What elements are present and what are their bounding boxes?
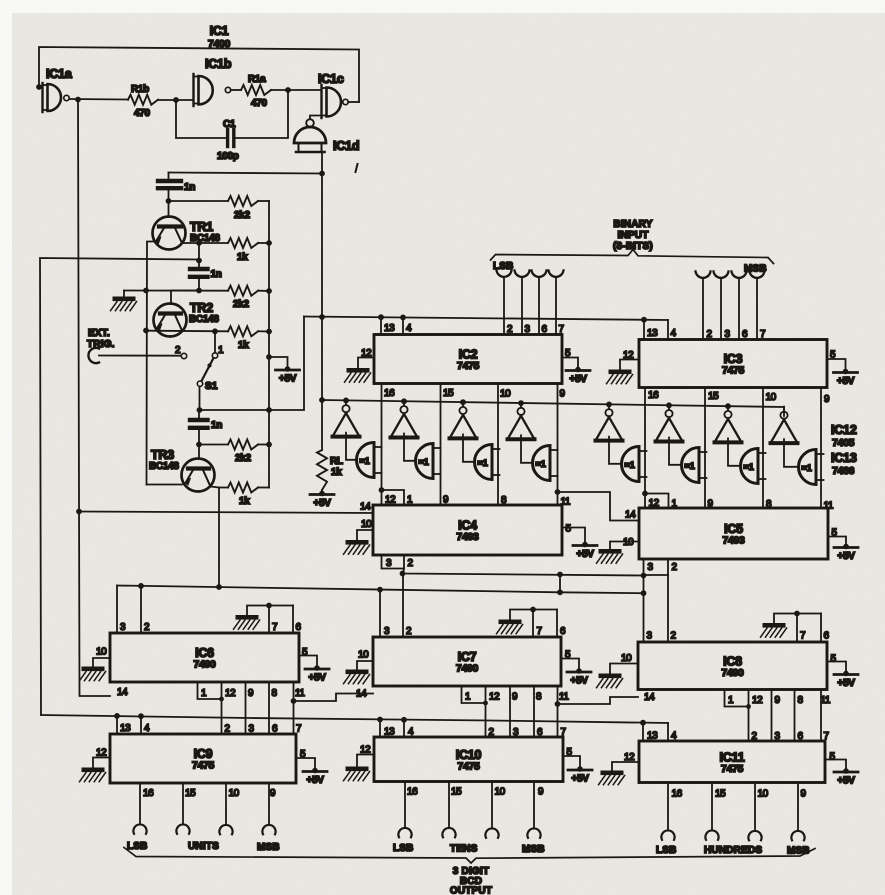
- pin 12 IC2: [358, 348, 374, 368]
- svg-text:7475: 7475: [457, 760, 480, 772]
- wire inverter 1 output: [346, 433, 357, 460]
- svg-text:9: 9: [512, 692, 518, 703]
- XOR gate IC13d: [533, 446, 558, 481]
- pin labels IC6 top: [120, 622, 302, 633]
- svg-text:9: 9: [801, 789, 807, 800]
- svg-text:6: 6: [824, 631, 830, 642]
- svg-text:11: 11: [561, 497, 571, 508]
- svg-text:2: 2: [225, 724, 231, 735]
- svg-text:9: 9: [560, 389, 566, 400]
- output terminal hundreds bit1: [705, 783, 718, 840]
- wire IC8 pins7,6 tie: [774, 611, 821, 642]
- wire IC6 pin12 to IC9 pin2: [221, 699, 223, 734]
- wire inverter 4 output: [521, 435, 533, 463]
- svg-text:LSB: LSB: [393, 843, 414, 854]
- svg-text:2k2: 2k2: [235, 453, 252, 464]
- output terminal units bit2: [219, 783, 232, 834]
- svg-text:+5V: +5V: [279, 374, 297, 385]
- wire IC1a output down to IC6 pin 14: [76, 100, 110, 697]
- IC7 bottom notch pin1: [462, 686, 488, 705]
- pin 14 IC8: [644, 692, 655, 703]
- svg-text:14: 14: [625, 510, 636, 521]
- wire IC2 pin16 to IC4 pin12: [379, 384, 385, 493]
- XOR gate IC13f: [682, 448, 707, 483]
- svg-text:14: 14: [644, 692, 655, 703]
- resistor RL (1k pull-up): [317, 450, 343, 490]
- pin 5 IC4: [566, 524, 572, 535]
- +5V supply IC8: [827, 662, 858, 690]
- svg-text:=1: =1: [419, 457, 429, 467]
- brace 3 digit BCD output: [124, 848, 815, 864]
- wire IC11 pin13 stub: [642, 723, 644, 741]
- ground IC7 pins7,6: [497, 620, 523, 634]
- wire IC2 pin10 to IC4 pin8: [497, 384, 499, 506]
- IC IC4 (7493): [373, 505, 562, 555]
- svg-text:10: 10: [96, 647, 107, 658]
- wire IC3 pin9 to IC5 pin11: [820, 388, 822, 509]
- svg-text:3: 3: [249, 724, 255, 735]
- svg-text:15: 15: [185, 788, 196, 799]
- pin labels IC8 top: [647, 631, 830, 642]
- svg-text:MSB: MSB: [787, 846, 810, 857]
- wire IC6 pin8 to IC9 pin6: [268, 682, 270, 734]
- svg-text:BINARY: BINARY: [613, 219, 652, 230]
- svg-text:C1: C1: [223, 119, 236, 130]
- svg-text:+5V: +5V: [569, 374, 587, 385]
- svg-text:16: 16: [407, 787, 418, 798]
- pin 10 IC7: [357, 650, 373, 670]
- svg-text:1k: 1k: [331, 467, 342, 478]
- IC IC11 (7475): [639, 741, 825, 783]
- svg-text:15: 15: [443, 388, 454, 399]
- +5V supply IC10: [563, 756, 592, 785]
- IC5 top notch pins 12,1: [645, 494, 669, 509]
- IC4 bottom notch pins 3,2: [382, 555, 414, 569]
- pin 12 IC10: [357, 745, 374, 767]
- +5V supply rail: [269, 357, 300, 385]
- wire cascade IC6 pin11 to IC7 pin14: [294, 694, 374, 702]
- pin 5 IC6: [302, 647, 308, 658]
- svg-text:7: 7: [800, 631, 806, 642]
- NAND gate IC1d: [294, 119, 359, 153]
- NAND gate IC1b: [194, 57, 232, 106]
- wire IC7 pin2 riser: [402, 574, 404, 638]
- svg-text:1: 1: [465, 692, 471, 703]
- output terminal units MSB: [262, 783, 275, 834]
- svg-text:BC148: BC148: [149, 461, 179, 472]
- wire latch strobe bus bottom: [41, 713, 668, 726]
- svg-text:15: 15: [715, 789, 726, 800]
- IC IC3 (7475): [639, 340, 827, 388]
- wire IC10 pin4 stub: [403, 720, 405, 737]
- svg-text:6: 6: [742, 329, 748, 340]
- XOR gate IC13h: [799, 450, 824, 485]
- wire IC8 pin8 to IC11 pin6: [794, 690, 796, 742]
- svg-text:11: 11: [295, 688, 305, 699]
- wire IC10 pin13 stub: [379, 720, 381, 738]
- svg-text:+5V: +5V: [570, 676, 588, 687]
- svg-text:+5V: +5V: [571, 774, 589, 785]
- svg-text:10: 10: [358, 650, 369, 661]
- ground IC10 pin12: [344, 767, 370, 781]
- wire IC2 pin9 to IC4 pin11: [555, 384, 561, 506]
- svg-text:7: 7: [561, 727, 567, 738]
- wire cascade IC4 pin11 to IC5 pin14: [558, 492, 640, 521]
- svg-text:1n: 1n: [184, 182, 195, 193]
- wire ground to 2k2 TR2 row: [124, 290, 228, 292]
- svg-text:TR3: TR3: [151, 448, 174, 462]
- XOR gate IC13a: [357, 443, 382, 478]
- svg-text:1n: 1n: [211, 420, 222, 431]
- svg-text:1n: 1n: [211, 269, 222, 280]
- output terminal units LSB: [133, 783, 146, 834]
- input terminal bit 1: [515, 271, 530, 335]
- label IC13 7486: [831, 451, 857, 477]
- svg-text:3: 3: [775, 731, 781, 742]
- svg-text:11: 11: [824, 501, 834, 512]
- wire IC8 pin3 riser: [641, 576, 647, 643]
- resistor R1a (470): [231, 74, 271, 109]
- pin 10 IC5: [610, 537, 639, 549]
- pin labels IC11 top: [647, 731, 830, 743]
- output terminal tens bit1: [442, 782, 455, 838]
- svg-text:14: 14: [360, 502, 371, 513]
- node TR1 collector: [166, 198, 228, 204]
- resistor 1k (TR3): [219, 483, 269, 508]
- svg-text:+5V: +5V: [306, 775, 324, 786]
- svg-text:6: 6: [798, 731, 804, 742]
- NAND gate IC1c: [318, 72, 359, 118]
- pin labels IC9 top: [120, 723, 302, 735]
- pin 12 IC3: [620, 350, 639, 370]
- svg-text:3: 3: [384, 626, 390, 637]
- svg-text:13: 13: [647, 731, 658, 742]
- pin 5 IC10: [567, 747, 573, 758]
- IC IC7 (7490): [373, 637, 561, 686]
- svg-text:7: 7: [559, 324, 565, 335]
- svg-text:2k2: 2k2: [234, 210, 251, 221]
- svg-text:=1: =1: [536, 459, 546, 469]
- svg-text:IC1d: IC1d: [333, 139, 359, 153]
- XOR gate IC13e: [622, 447, 647, 482]
- svg-text:11: 11: [559, 692, 569, 703]
- stray mark: [356, 164, 358, 172]
- ground IC9 pin12: [80, 768, 106, 782]
- pin labels IC2 bottom: [384, 388, 566, 400]
- wire inverter stub 2: [403, 401, 405, 405]
- svg-text:R1b: R1b: [131, 84, 149, 95]
- wire TR1 emitter to 1k and down: [182, 240, 228, 263]
- output terminal units bit1: [176, 783, 189, 834]
- pin 14 IC7: [356, 689, 367, 700]
- svg-text:7475: 7475: [457, 360, 480, 372]
- pin labels IC6 bottom: [201, 688, 305, 699]
- wire IC3 pin13 stub: [643, 320, 645, 340]
- svg-text:2: 2: [672, 562, 678, 573]
- wire inverter 5 output: [609, 437, 622, 464]
- wire inverter 8 output: [784, 439, 799, 467]
- svg-text:7490: 7490: [721, 667, 744, 679]
- svg-text:3: 3: [647, 631, 653, 642]
- pin 10 IC4: [357, 519, 373, 540]
- wire IC6 pin9 to IC9 pin3: [245, 682, 247, 734]
- output terminal tens LSB: [398, 782, 411, 838]
- svg-text:TR2: TR2: [190, 301, 213, 315]
- wire IC2 pin13 stub: [380, 317, 382, 334]
- svg-text:MSB: MSB: [522, 844, 545, 855]
- svg-text:3: 3: [648, 562, 654, 573]
- wire R1b to IC1b input: [158, 97, 193, 103]
- switch S1: [197, 331, 224, 410]
- ground IC3 pin12: [607, 370, 633, 384]
- svg-text:7405: 7405: [832, 437, 855, 449]
- svg-text:9: 9: [775, 695, 781, 706]
- wire IC8 pin2 riser: [667, 575, 669, 642]
- resistor 2k2 (TR2): [228, 286, 269, 310]
- pin 5 IC3: [830, 350, 836, 361]
- svg-text:EXT.: EXT.: [88, 328, 110, 339]
- pin labels IC10 bottom: [407, 787, 544, 798]
- +5V supply IC9: [296, 758, 327, 786]
- wire IC7 pins7,6 tie: [510, 607, 557, 637]
- IC IC10 (7475): [374, 737, 563, 782]
- svg-text:16: 16: [648, 390, 659, 401]
- svg-text:8: 8: [272, 688, 278, 699]
- capacitor 1n (top): [158, 173, 195, 218]
- node TR3 collector: [196, 442, 228, 448]
- wire TR3 emitter: [211, 487, 220, 588]
- inverter IC12a: [333, 405, 360, 437]
- wire +5V rail vertical: [266, 201, 272, 488]
- wire top feedback line: [39, 47, 359, 102]
- pin 12 IC11: [612, 752, 639, 771]
- svg-text:7490: 7490: [456, 663, 479, 675]
- wire inverter stub 6: [668, 405, 670, 409]
- ground IC4 pin10: [344, 540, 370, 554]
- ground IC6 pin10: [80, 667, 106, 681]
- wire TR1 left lead down to TR3 base: [143, 242, 156, 485]
- wire reset bus lower (TR3 emitter): [117, 583, 644, 595]
- pin 10 IC6: [93, 647, 110, 667]
- svg-text:7: 7: [824, 731, 830, 742]
- svg-text:BC148: BC148: [189, 314, 219, 325]
- inverter IC12e: [596, 409, 623, 441]
- inverter IC12f: [656, 410, 683, 442]
- svg-text:OUTPUT: OUTPUT: [450, 886, 492, 895]
- svg-text:2: 2: [671, 631, 677, 642]
- +5V supply IC2: [562, 358, 590, 386]
- wire IC1d output to IC1c input: [310, 116, 322, 119]
- svg-text:=1: =1: [802, 463, 812, 473]
- input terminal bit 3: [549, 271, 564, 335]
- inverter IC12g: [715, 411, 742, 443]
- svg-text:4: 4: [671, 731, 677, 742]
- wire cascade IC7 pin11 to IC8 pin14: [558, 697, 639, 704]
- svg-text:IC13: IC13: [831, 451, 857, 465]
- input terminal bit 4: [696, 272, 711, 340]
- resistor R1b (470): [128, 84, 158, 119]
- output terminal hundreds MSB: [791, 783, 804, 841]
- wire inverter stub 8: [783, 407, 785, 411]
- svg-text:2: 2: [144, 622, 150, 633]
- svg-text:LSB: LSB: [127, 841, 148, 852]
- pin 12 IC9: [93, 748, 110, 768]
- transistor TR3 (BC148): [147, 448, 215, 492]
- svg-text:10: 10: [500, 389, 511, 400]
- pin 5 IC5: [832, 528, 838, 539]
- +5V supply IC3: [827, 359, 858, 387]
- wire clock bus to IC4 pin 14: [80, 512, 374, 514]
- pin labels IC3 bottom: [648, 390, 830, 405]
- svg-text:1: 1: [201, 688, 207, 699]
- wire IC6 pin3 stub (bus end): [116, 586, 118, 634]
- wire IC2 pin4 stub: [402, 317, 404, 334]
- svg-text:=1: =1: [625, 460, 635, 470]
- capacitor 1n (TR3): [190, 410, 222, 459]
- +5V supply IC4: [562, 528, 597, 561]
- +5V supply IC7: [561, 659, 591, 687]
- svg-text:1: 1: [672, 499, 678, 510]
- label BINARY INPUT (8-BITS): [613, 219, 653, 252]
- svg-text:15: 15: [451, 787, 462, 798]
- pin labels IC2 top: [384, 323, 565, 335]
- wire IC6 pins7,6 tie: [247, 603, 293, 633]
- svg-text:4: 4: [144, 723, 150, 734]
- svg-text:5: 5: [831, 654, 837, 665]
- svg-text:2: 2: [175, 345, 181, 356]
- XOR gate IC13b: [416, 444, 441, 479]
- svg-text:TR1: TR1: [190, 220, 213, 234]
- IC IC6 (7490): [110, 633, 299, 682]
- input terminal bit 0: [497, 271, 512, 335]
- svg-text:16: 16: [384, 388, 395, 399]
- svg-text:S1: S1: [205, 381, 218, 392]
- output terminal tens bit2: [485, 782, 498, 838]
- wire IC7 pin3 stub: [379, 590, 381, 637]
- ground IC8 pins7,6: [761, 623, 787, 637]
- svg-text:8: 8: [798, 695, 804, 706]
- pin labels IC3 top: [647, 328, 766, 340]
- pin labels IC11 bottom: [672, 789, 807, 800]
- svg-text:13: 13: [384, 727, 395, 738]
- svg-text:IC1a: IC1a: [46, 67, 73, 81]
- svg-text:9: 9: [538, 787, 544, 798]
- capacitor C1 (100p): [217, 119, 239, 162]
- svg-text:7475: 7475: [722, 365, 745, 377]
- svg-text:16: 16: [143, 788, 154, 799]
- svg-text:6: 6: [272, 724, 278, 735]
- svg-text:=1: =1: [744, 462, 754, 472]
- svg-text:12: 12: [752, 695, 763, 706]
- wire IC9 pin13 stub: [116, 716, 118, 734]
- wire IC6 pin11 to IC9 pin7 and cascade: [291, 682, 297, 734]
- wire IC8 pin9 to IC11 pin3: [771, 690, 773, 742]
- wire IC3 pin15 to IC5 pin9: [704, 388, 706, 509]
- IC IC9 (7475): [110, 734, 296, 783]
- wire IC1a output to R1b: [70, 97, 129, 103]
- svg-text:7490: 7490: [193, 659, 216, 671]
- svg-text:11: 11: [821, 695, 831, 706]
- svg-text:INPUT: INPUT: [618, 230, 649, 241]
- svg-text:7: 7: [760, 329, 766, 340]
- svg-text:470: 470: [134, 108, 151, 119]
- svg-text:7493: 7493: [456, 531, 479, 543]
- svg-text:7: 7: [272, 622, 278, 633]
- svg-text:8: 8: [766, 499, 772, 510]
- wire IC7 pin12 to IC10 pin2: [485, 703, 487, 737]
- output terminal hundreds LSB: [661, 783, 674, 840]
- IC IC5 (7493): [639, 508, 828, 559]
- resistor 2k2 (TR3): [228, 440, 269, 465]
- pin labels IC8 bottom: [728, 695, 831, 706]
- ground IC7 pin10: [344, 670, 370, 684]
- svg-text:+5V: +5V: [837, 376, 855, 387]
- svg-text:2: 2: [707, 329, 713, 340]
- svg-text:R1a: R1a: [248, 74, 266, 85]
- pin labels IC5 top: [649, 498, 834, 512]
- svg-text:1: 1: [218, 345, 224, 356]
- input terminal bit 2: [532, 271, 547, 335]
- svg-text:10: 10: [229, 788, 240, 799]
- ground IC8 pin10: [597, 674, 623, 688]
- svg-text:6: 6: [560, 626, 566, 637]
- pin 10 IC8: [610, 653, 638, 674]
- svg-text:1: 1: [728, 695, 734, 706]
- svg-text:2: 2: [406, 626, 412, 637]
- wire reset bus upper (IC4/IC5 pins 2,3): [400, 569, 647, 579]
- svg-text:2: 2: [489, 727, 495, 738]
- wire inverter 3 output: [463, 434, 475, 461]
- label 3 DIGIT BCD OUTPUT: [450, 866, 492, 895]
- svg-text:6: 6: [296, 622, 302, 633]
- svg-text:14: 14: [117, 687, 128, 698]
- XOR gate IC13g: [741, 449, 766, 484]
- svg-text:13: 13: [120, 723, 131, 734]
- wire reset bus link: [559, 575, 561, 593]
- wire latch enable bus (IC2/IC3 pins 13,4): [304, 314, 668, 322]
- svg-text:7475: 7475: [721, 763, 744, 775]
- svg-text:3: 3: [120, 622, 126, 633]
- svg-text:12: 12: [225, 688, 236, 699]
- svg-text:7475: 7475: [192, 760, 215, 772]
- svg-text:6: 6: [542, 324, 548, 335]
- svg-text:3: 3: [725, 329, 731, 340]
- input terminal bit 5: [714, 272, 729, 340]
- transistor TR1 (BC148): [153, 217, 221, 250]
- svg-text:9: 9: [248, 688, 254, 699]
- IC8 bottom notch pin1: [725, 690, 751, 709]
- svg-text:10: 10: [758, 789, 769, 800]
- svg-text:=1: =1: [478, 458, 488, 468]
- pin labels IC7 bottom: [465, 692, 569, 703]
- svg-text:MSB: MSB: [257, 842, 280, 853]
- wire reset line to left rail: [40, 258, 199, 715]
- wire TR2 emitter row: [147, 328, 229, 334]
- capacitor 1n (TR2): [190, 261, 222, 291]
- svg-text:2: 2: [408, 558, 414, 569]
- pin 5 IC7: [565, 650, 571, 661]
- svg-text:10: 10: [495, 787, 506, 798]
- svg-text:5: 5: [566, 524, 572, 535]
- svg-text:+5V: +5V: [837, 551, 855, 562]
- svg-text:9: 9: [824, 394, 830, 405]
- svg-text:+5V: +5V: [313, 498, 331, 509]
- IC IC2 (7475): [374, 335, 562, 384]
- svg-text:13: 13: [384, 323, 395, 334]
- ground IC5 pin10: [597, 549, 623, 563]
- svg-text:2k2: 2k2: [233, 299, 250, 310]
- ground IC6 pins7,6: [234, 615, 260, 629]
